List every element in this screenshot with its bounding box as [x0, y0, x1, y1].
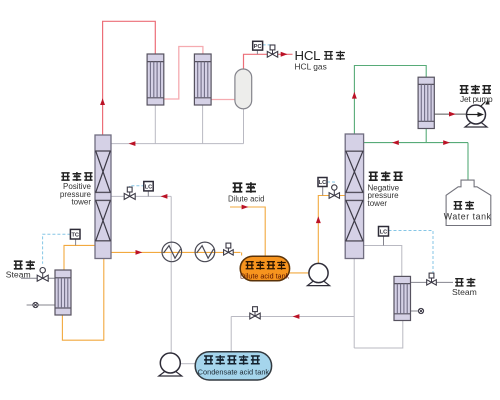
svg-text:Condensate acid tank: Condensate acid tank	[198, 367, 270, 376]
vessel V1 buffer drum	[235, 69, 252, 109]
wire grey: E4 drain stub	[411, 310, 422, 312]
instrument stem LC3	[383, 236, 385, 246]
wire grey: bottom U run to E4	[354, 321, 403, 349]
dilute acid tank	[240, 256, 289, 281]
arrow left on condensate line	[293, 314, 300, 319]
valve pump P1 to tower T2	[329, 193, 334, 199]
instrument stem LC2	[322, 187, 324, 196]
wire green: tower T2 top to E3	[354, 66, 426, 135]
wire pink: E1 bottom to E2 top	[164, 47, 203, 100]
arrow left toward tower T1	[161, 194, 168, 199]
instrument stem LC1	[147, 191, 149, 197]
wire green: E3 bottom to header	[425, 129, 427, 143]
dash LC1 to valve	[130, 186, 144, 189]
wire dark: E3 to jet pump P3	[434, 113, 466, 115]
arrow left toward tower T2	[392, 140, 399, 145]
valve E5 steam inlet	[37, 275, 43, 281]
arrow up pump P1 discharge	[316, 216, 321, 223]
wire grey: vessel V1 drop leg	[243, 109, 245, 144]
label jet pump	[460, 86, 469, 93]
valve E4 steam inlet	[427, 280, 432, 285]
instrument TC1	[70, 229, 80, 239]
condensate acid tank	[195, 352, 271, 380]
wire orange: dilute acid inlet with arrow	[230, 207, 265, 256]
arrow right HCL gas	[281, 52, 288, 57]
instrument PC1	[253, 41, 263, 50]
arrow up on tower T2 overhead	[352, 92, 357, 99]
dash LC3 to steam valve	[389, 231, 434, 273]
svg-text:tower: tower	[71, 198, 91, 207]
instrument LC2	[318, 178, 327, 187]
wire grey: E5 steam inlet run	[21, 277, 55, 279]
heat exchanger E1	[147, 54, 164, 105]
label water tank	[454, 202, 462, 209]
arrow left into tower T1	[129, 141, 136, 146]
jet pump internal arrow	[467, 114, 480, 116]
tower T2 negative pressure tower	[345, 134, 363, 259]
wire grey: E4 steam inlet run	[411, 281, 454, 283]
svg-text:LC: LC	[380, 229, 387, 235]
tower T1 positive pressure tower	[95, 135, 111, 259]
wire grey: down leg through cooler C1 to pump P2	[170, 196, 172, 353]
jet pump P3	[465, 123, 487, 128]
heat exchanger E3 jet pump cooler	[418, 77, 434, 128]
wire orange: tower T1 bottom feed from E5	[64, 245, 95, 270]
wire pink: E2 bottom to vessel V1	[211, 99, 235, 101]
wire orange: pump P1 discharge riser to tower T2	[318, 196, 345, 264]
pump P2 condensate pump	[159, 372, 182, 377]
wire grey: E2 condensate drop leg	[202, 105, 204, 144]
svg-text:Water tank: Water tank	[444, 211, 492, 221]
wire red: positive tower top to E1	[103, 21, 156, 135]
heat exchanger E4 right steam heater	[394, 276, 411, 320]
instrument stem PC1	[256, 50, 258, 54]
valve T1 acid outlet	[124, 193, 130, 199]
wire orange: dilute tank to pump P1	[289, 272, 309, 274]
heat exchanger E2	[194, 54, 211, 105]
svg-text:TC: TC	[71, 232, 78, 238]
label positive pressure tower	[61, 173, 69, 180]
wire grey: condensate return header into tower T1	[111, 143, 244, 145]
wire grey: tower T2 side outlet to E4 top	[364, 246, 402, 277]
cooler C2 circle exchanger	[195, 242, 215, 262]
valve cooler to dilute tank	[224, 250, 229, 255]
instrument LC3	[379, 227, 389, 237]
arrow right toward water tank	[443, 140, 450, 145]
dash TC1 to steam valve	[43, 234, 71, 264]
wire grey: condensate line valve run	[231, 316, 354, 318]
wire grey: drop into condensate tank	[230, 317, 232, 352]
svg-text:Dilute acid tank: Dilute acid tank	[240, 271, 290, 280]
svg-text:Steam: Steam	[6, 270, 31, 280]
drain fitting E5	[33, 302, 38, 307]
svg-text:LC: LC	[145, 184, 152, 190]
drain fitting E4	[418, 308, 423, 313]
wire green: header between tower T2 and water tank	[364, 142, 468, 144]
valve condensate line	[250, 313, 255, 319]
arrow right to jet pump	[449, 112, 456, 117]
jet pump rotation arrow	[481, 102, 486, 107]
label steam right	[455, 279, 463, 286]
cooler C1 circle exchanger	[162, 242, 182, 262]
label dilute acid	[233, 183, 243, 191]
svg-text:Dilute acid: Dilute acid	[228, 194, 264, 203]
water tank	[446, 180, 491, 225]
svg-text:Steam: Steam	[452, 287, 477, 297]
svg-text:PC: PC	[254, 44, 262, 50]
wire red: vessel V1 top to HCL gas outlet	[244, 54, 293, 69]
svg-text:LC: LC	[319, 180, 326, 186]
wire orange: tower T1 bottoms U loop to E5	[62, 259, 103, 341]
instrument LC1	[144, 182, 153, 191]
dash LC2 to valve	[327, 182, 334, 188]
heat exchanger E5 left steam heater	[55, 270, 71, 315]
wire green: drop into water tank	[467, 143, 469, 181]
arrow up on riser	[100, 98, 105, 105]
pump P1 dilute acid pump	[307, 281, 329, 286]
wire grey: tower T2 bottom leg down	[353, 259, 355, 349]
wire grey: pump P2 to condensate tank	[181, 363, 196, 365]
svg-text:HCL gas: HCL gas	[295, 62, 327, 72]
arrow right dilute acid inlet	[242, 205, 249, 210]
wire orange: jog down into dilute tank	[241, 252, 243, 255]
wire grey: E5 drain stub	[27, 304, 55, 306]
label condensate acid tank	[204, 356, 213, 364]
arrow right on acid line	[136, 250, 143, 255]
wire grey: E1 condensate drop leg	[154, 105, 156, 144]
svg-text:Jet pump: Jet pump	[460, 94, 493, 104]
instrument stem TC1	[75, 239, 77, 245]
valve HCL outlet	[267, 51, 272, 57]
dash PC1 to HCL valve	[263, 45, 273, 48]
label dilute acid tank	[246, 262, 254, 269]
wire grey: tower T1 acid outlet to valve and down leg	[111, 195, 171, 197]
label steam left	[14, 261, 23, 269]
wire orange: tower T1 acid to coolers C1 C2 and dilute tank	[111, 251, 241, 253]
label negative pressure tower	[369, 172, 378, 180]
svg-text:tower: tower	[368, 199, 388, 208]
